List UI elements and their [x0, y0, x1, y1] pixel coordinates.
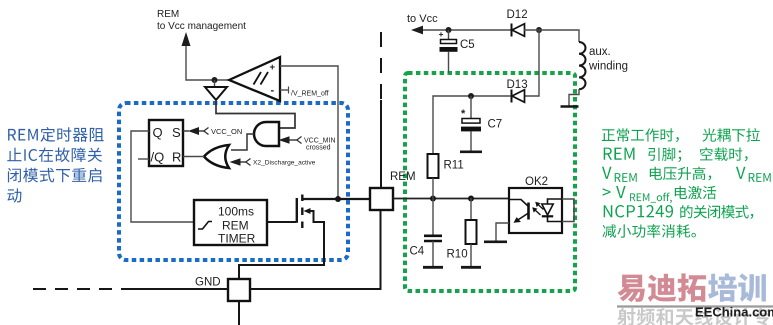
ground bar for C7	[460, 151, 482, 154]
svg-text:winding: winding	[588, 61, 628, 73]
svg-text:*: *	[461, 108, 466, 120]
flip-flop latch (S/R)	[149, 120, 183, 166]
svg-text:S: S	[172, 125, 181, 140]
svg-text:/V_REM_off: /V_REM_off	[291, 91, 329, 98]
svg-text:TIMER: TIMER	[218, 232, 256, 246]
resistor R11	[428, 154, 439, 178]
watermark: Yiditu training logo text	[617, 273, 706, 302]
svg-text:+: +	[270, 62, 276, 73]
svg-text:/Q: /Q	[151, 150, 165, 165]
svg-text:R10: R10	[447, 249, 468, 261]
svg-text:D12: D12	[507, 9, 528, 21]
wire: MOSFET drain to REM pin	[303, 198, 370, 200]
svg-text:+: +	[439, 29, 444, 39]
svg-text:Q: Q	[153, 125, 163, 140]
wire: inverter to AND gate top input	[216, 100, 295, 128]
capacitor C4	[432, 198, 434, 235]
REM pin pad	[370, 188, 393, 210]
signal arrow X2_Discharge_active	[230, 158, 241, 166]
wire: timer output to MOSFET gate	[267, 221, 296, 223]
wire: winding bottom stub	[569, 89, 579, 106]
wire: dashed stub left of GND rail	[33, 288, 130, 290]
wire: below GND pad	[238, 301, 240, 325]
wire: D12 anode to winding	[524, 30, 579, 42]
OK2 LED	[548, 199, 562, 204]
wire: D13 cathode rail to R11	[433, 96, 511, 154]
node: R11/C4 junction	[430, 196, 436, 202]
inverter triangle (driver)	[205, 87, 227, 100]
wire: link D12 node down to D13 anode	[524, 30, 539, 96]
node: C7 tap	[468, 93, 474, 99]
svg-text:-: -	[271, 85, 275, 97]
wire: /Q stub	[138, 158, 149, 160]
node: R10 junction	[468, 196, 474, 202]
signal arrow VCC_MIN crossed	[279, 136, 290, 144]
watermark divider line	[617, 305, 773, 307]
timer block 100ms REM TIMER	[194, 200, 267, 245]
wire: OR output to R input	[183, 156, 204, 158]
svg-text:R11: R11	[444, 160, 464, 172]
wire: dashed+solid vertical above REM pin	[380, 32, 382, 102]
svg-text:100ms: 100ms	[218, 205, 254, 219]
svg-text:REM: REM	[390, 171, 416, 183]
arrow to REM / Vcc management	[182, 32, 191, 46]
wire: comparator + input feedback loop	[280, 66, 338, 197]
AND gate (mirrored)	[254, 122, 279, 146]
arrow to Vcc (top)	[411, 26, 423, 35]
wire: AND output to OR input	[231, 134, 254, 150]
wire: Vcc top rail	[423, 29, 511, 31]
wire: REM rail to optocoupler	[393, 198, 509, 200]
resistor R10	[470, 198, 472, 220]
wire: OK2 emitter to ground bar	[496, 223, 509, 241]
svg-text:OK2: OK2	[525, 176, 548, 188]
wire: comparator output to REM arrow vertical	[186, 44, 229, 80]
OK2 phototransistor	[527, 203, 530, 220]
svg-text:C7: C7	[488, 119, 503, 131]
wire: GND rail left	[129, 288, 228, 290]
svg-text:C4: C4	[410, 246, 425, 258]
svg-text:GND: GND	[195, 277, 221, 289]
svg-text:C5: C5	[460, 39, 475, 51]
GND pin pad	[228, 279, 250, 301]
node: drain / comparator loop junction	[335, 196, 341, 202]
inductor aux winding	[579, 42, 586, 89]
OR gate (mirrored)	[204, 145, 229, 168]
node: comparator output junction	[212, 77, 218, 83]
svg-text:VCC_MIN: VCC_MIN	[304, 138, 336, 145]
wire: OK2 right side pair	[562, 199, 574, 222]
svg-text:REM: REM	[157, 9, 179, 20]
wire: comparator - input stub	[280, 89, 289, 91]
blue dashed block boundary (REM timer logic)	[119, 103, 348, 260]
wire: Q feedback to timer input	[131, 131, 194, 222]
svg-text:crossed: crossed	[306, 145, 331, 152]
svg-text:X2_Discharge_active: X2_Discharge_active	[253, 160, 316, 167]
svg-text:to Vcc: to Vcc	[407, 13, 438, 25]
capacitor C5 (polarized)	[448, 30, 450, 40]
OK2 light arrows	[534, 209, 541, 215]
note: blue annotation text (Chinese)	[8, 127, 104, 142]
svg-text:REM: REM	[222, 219, 249, 233]
timer ramp icon	[198, 222, 212, 230]
svg-text:EEChina.com: EEChina.com	[695, 305, 773, 320]
node: D12/D13 tap	[536, 27, 542, 33]
wire: junction to inverter triangle	[214, 80, 216, 87]
green dashed block boundary (opto / REM pin network)	[405, 73, 575, 291]
signal arrow VCC_ON into S	[183, 130, 189, 132]
comparator U1 with hysteresis	[229, 57, 280, 101]
svg-text:VCC_ON: VCC_ON	[211, 127, 242, 136]
svg-text:R: R	[172, 150, 181, 165]
wire: R11 to REM rail	[432, 178, 434, 198]
capacitor C7 (polarized)	[470, 96, 472, 119]
svg-text:aux.: aux.	[589, 46, 611, 58]
note: green annotation text (Chinese)	[602, 128, 679, 142]
wire: GND rail right up to REM pin	[250, 210, 381, 289]
svg-text:to Vcc management: to Vcc management	[157, 21, 246, 32]
node: C5 tap	[446, 27, 452, 33]
transistor M1 (NMOS)	[296, 198, 298, 223]
watermark: RF and antenna design text	[617, 308, 773, 325]
